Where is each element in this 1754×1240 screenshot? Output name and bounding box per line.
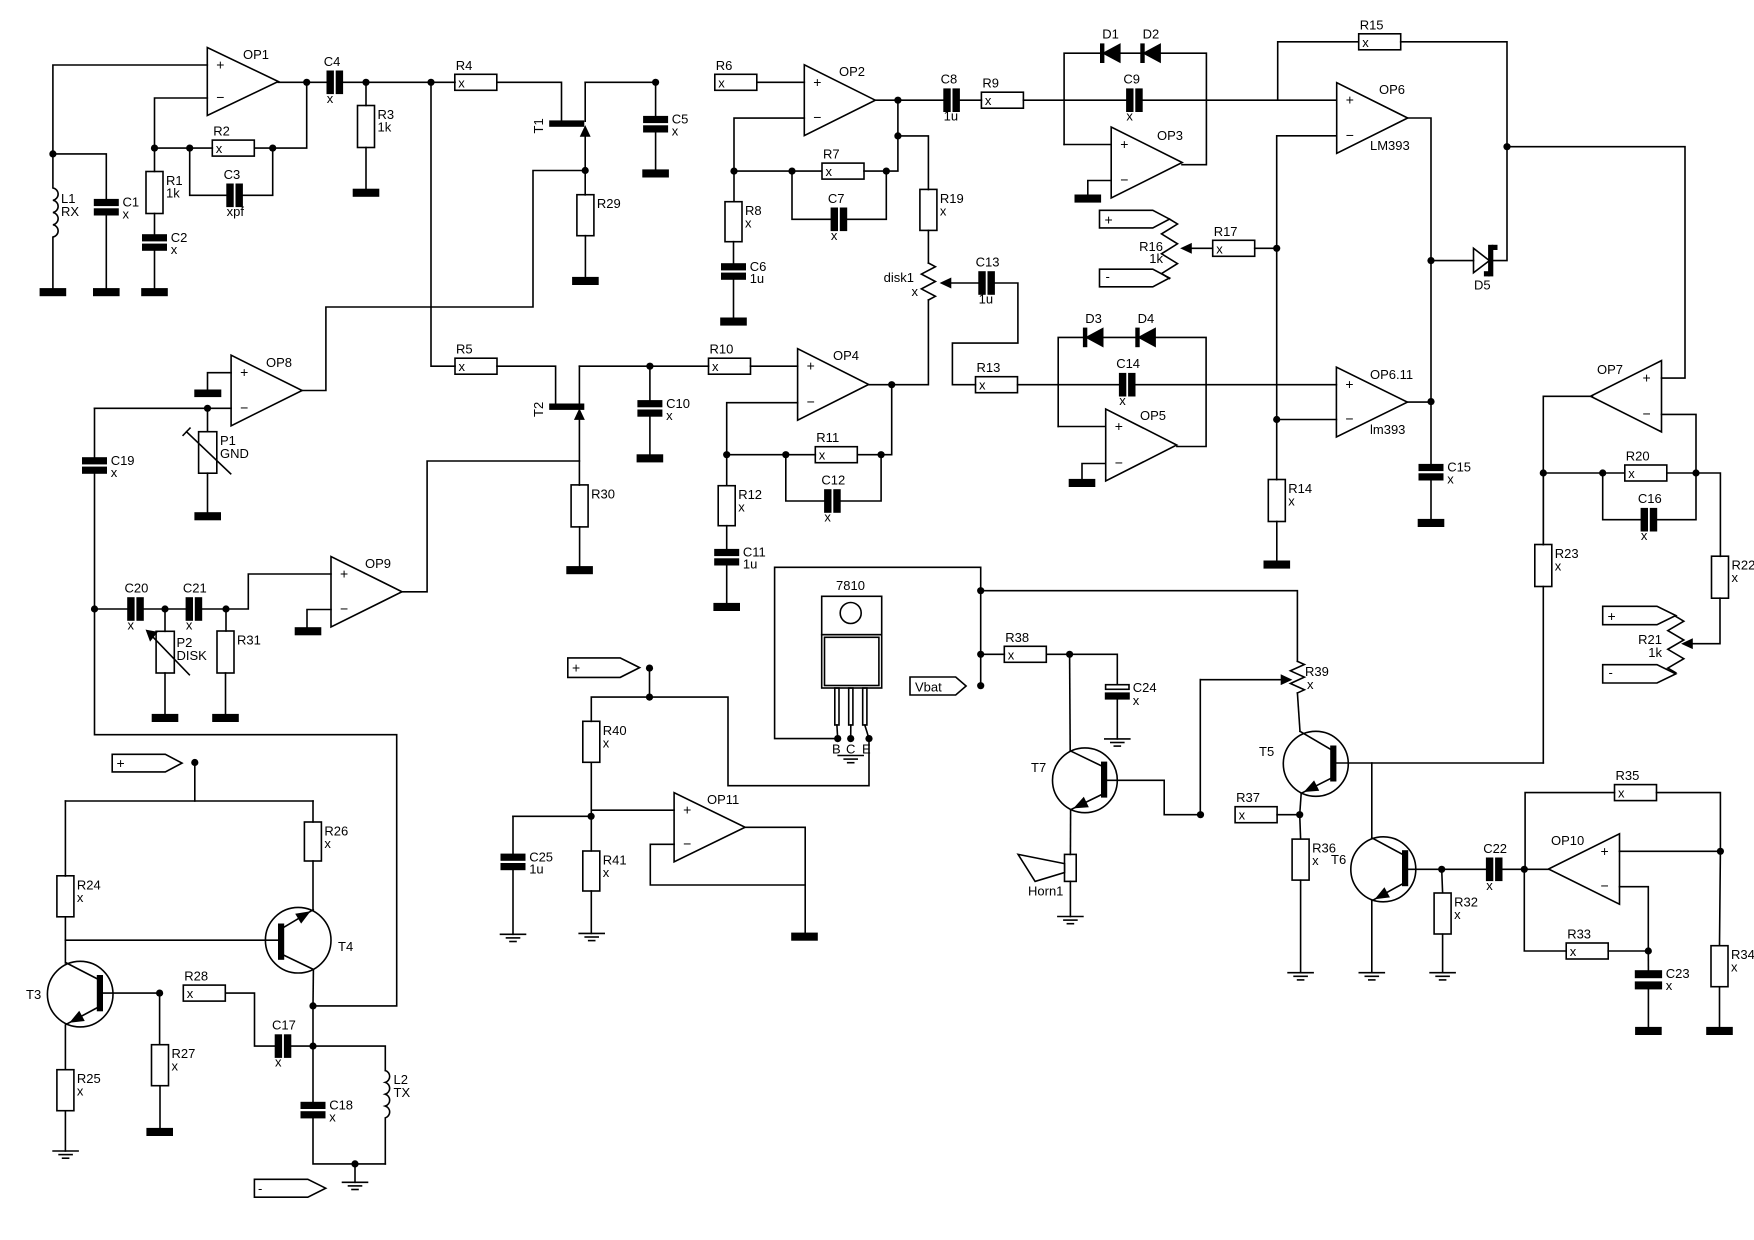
ground C15 (1419, 520, 1444, 527)
svg-text:C8: C8 (941, 72, 958, 87)
wire T5 emitter down (1300, 793, 1302, 814)
capacitor C17 (276, 1035, 282, 1057)
svg-text:−: − (1345, 411, 1353, 427)
node P1/OP8- (204, 405, 211, 412)
wire P2 to ground (164, 673, 166, 715)
svg-text:x: x (128, 618, 135, 633)
wire C3 right leg (242, 148, 273, 195)
resistor R27 (152, 1045, 169, 1086)
svg-text:−: − (340, 601, 348, 617)
svg-text:+: + (1608, 608, 1616, 624)
ground R14 (1264, 561, 1289, 568)
svg-text:DISK: DISK (177, 648, 208, 663)
capacitor C25 (501, 854, 524, 860)
wire R25 to ground (64, 1111, 66, 1151)
node OP2 output (894, 97, 901, 104)
svg-text:C13: C13 (976, 255, 1000, 270)
svg-text:1k: 1k (1149, 251, 1163, 266)
wire plus to rail (194, 763, 196, 802)
capacitor C13 (979, 272, 985, 294)
op-amp OP4 (798, 349, 869, 421)
wire OP6.11 - input (1277, 419, 1337, 421)
svg-text:x: x (172, 1059, 179, 1074)
ground R31 (213, 715, 238, 722)
resistor R31 (217, 631, 234, 673)
svg-text:+: + (572, 660, 580, 676)
svg-text:x: x (912, 284, 919, 299)
wire T6 base (1407, 868, 1441, 870)
wiper arrow R21 (1683, 640, 1692, 648)
node OP6.11 - (1273, 416, 1280, 423)
svg-text:x: x (275, 1055, 282, 1070)
node OP10+/R34/R35 (1717, 848, 1724, 855)
svg-text:T1: T1 (531, 118, 546, 133)
capacitor C3 (227, 184, 233, 206)
wire R6 to OP2 (757, 81, 805, 83)
svg-text:x: x (831, 228, 838, 243)
capacitor C16 (1641, 509, 1647, 531)
wire D3 loop left vertical (1058, 337, 1083, 426)
resistor R7 (822, 163, 864, 179)
ground C1 (94, 289, 119, 296)
wire C7 right leg (846, 171, 886, 219)
wire plus mid vertical (649, 668, 651, 697)
svg-text:x: x (1666, 978, 1673, 993)
wire R40 to OP11 + node (590, 762, 592, 851)
node R3 top (362, 79, 369, 86)
battery minus terminal (1100, 269, 1170, 287)
svg-text:GND: GND (220, 446, 249, 461)
svg-text:OP6.11: OP6.11 (1370, 367, 1413, 382)
svg-text:x: x (718, 75, 725, 90)
trimmer T2 (550, 404, 584, 409)
svg-text:+: + (1345, 376, 1353, 392)
svg-text:OP3: OP3 (1157, 128, 1183, 143)
wire T7 emitter to horn (1069, 810, 1071, 855)
svg-text:+: + (117, 755, 125, 771)
transistor T7 (1053, 748, 1118, 813)
node L1/C1 junction (49, 150, 56, 157)
node R38 left (977, 651, 984, 658)
wiper arrow R16 (1182, 244, 1191, 252)
wire OP5 + input (1058, 426, 1106, 428)
wire R38 row (981, 653, 1005, 655)
transistor T4 (265, 907, 331, 973)
capacitor C14 (1120, 374, 1126, 396)
svg-text:−: − (807, 394, 815, 410)
resistor R17 (1213, 240, 1255, 256)
svg-text:x: x (824, 510, 831, 525)
wire R8 stub (733, 171, 735, 202)
svg-text:x: x (1288, 494, 1295, 509)
wire C12 left leg (786, 455, 825, 501)
potentiometer R39 (1290, 661, 1304, 693)
wire OP11 + input (591, 809, 674, 811)
battery plus terminal (1100, 210, 1170, 228)
svg-text:OP4: OP4 (833, 348, 859, 363)
svg-text:+: + (807, 358, 815, 374)
wire C20-C21 (143, 608, 186, 610)
resistor R20 (1625, 465, 1667, 481)
wire OP3 + input (1064, 144, 1111, 146)
wire rail ground stub (354, 1164, 356, 1182)
wire R10 to OP4 (751, 365, 798, 367)
wire R8 to C6 (733, 242, 735, 264)
capacitor C21 (186, 598, 192, 620)
node C21/R31 (222, 605, 229, 612)
svg-text:x: x (458, 75, 465, 90)
wire T6 emitter to ground (1371, 901, 1373, 973)
wire node to C18 (312, 1046, 314, 1103)
svg-text:R5: R5 (456, 342, 473, 357)
svg-text:R31: R31 (237, 633, 261, 648)
svg-text:D4: D4 (1138, 311, 1155, 326)
wire 7810 B to top rail (775, 567, 981, 738)
svg-text:x: x (603, 865, 610, 880)
svg-text:OP9: OP9 (365, 556, 391, 571)
svg-text:x: x (1362, 35, 1369, 50)
wire C25 to ground (512, 870, 514, 935)
wire T4 collector down (312, 969, 314, 1006)
battery minus terminal right (1603, 665, 1676, 683)
ground C2 (142, 289, 167, 296)
inductor L2 (385, 1071, 389, 1164)
node 7810 pin B (834, 735, 841, 742)
wire T7 collector (1069, 654, 1072, 751)
resistor R28 (183, 985, 225, 1001)
node T4 collector (309, 1002, 316, 1009)
resistor R4 (455, 74, 497, 90)
wire R35 left leg (1525, 793, 1614, 869)
wire OP3 - input to ground (1088, 181, 1111, 196)
svg-text:OP5: OP5 (1140, 408, 1166, 423)
wire R4 to T1 (497, 82, 562, 121)
wire horn to ground (1069, 881, 1071, 916)
wire OP6.11 output stub (1407, 401, 1431, 403)
wire OP10 + input (1620, 850, 1721, 852)
node OP7 out/R23/R20 (1540, 469, 1547, 476)
wire OP2 output (875, 99, 944, 101)
diode D3 (1084, 328, 1087, 346)
svg-text:x: x (1555, 559, 1562, 574)
wire node to R1 (154, 148, 156, 171)
wire R1 to C2 (154, 214, 156, 236)
wire R12 stub (726, 455, 728, 486)
wire R33 branch (1524, 869, 1566, 951)
wire R19 branch (898, 136, 929, 190)
svg-text:T2: T2 (531, 402, 546, 417)
svg-text:R30: R30 (591, 486, 615, 501)
wire C11 to ground (726, 565, 728, 604)
svg-text:disk1: disk1 (884, 270, 914, 285)
svg-text:TX: TX (394, 1085, 411, 1100)
svg-text:−: − (1643, 405, 1651, 421)
wire C18 to bottom rail (313, 1118, 385, 1164)
wire to C22 (1442, 868, 1487, 870)
wire OP6 output (1407, 118, 1431, 465)
wire L2 branch (313, 1046, 385, 1070)
transistor T6 (1351, 837, 1416, 902)
node D5 row (1427, 257, 1434, 264)
svg-text:OP6: OP6 (1379, 82, 1405, 97)
potentiometer P1 (199, 432, 217, 474)
wire R32 to ground (1442, 934, 1444, 973)
capacitor C9 (1127, 89, 1133, 111)
svg-text:lm393: lm393 (1370, 422, 1405, 437)
ground 7810 C pin (838, 755, 863, 757)
wire R39 wiper down (1199, 680, 1201, 815)
wire C14 to OP6.11 + (1135, 384, 1337, 386)
ground OP9 (296, 628, 321, 635)
capacitor C22 (1487, 858, 1493, 880)
trimmer T2 wiper arrow (575, 410, 583, 419)
wire R17 to OP6- node (1255, 247, 1277, 249)
wire OP11 feedback loop (650, 827, 805, 885)
node R33/C23/OP10- (1645, 947, 1652, 954)
resistor R15 (1359, 34, 1401, 50)
svg-text:LM393: LM393 (1370, 138, 1410, 153)
capacitor C4 (327, 71, 333, 93)
resistor R34 (1711, 946, 1728, 987)
capacitor C20 (128, 598, 134, 620)
svg-text:x: x (1307, 677, 1314, 692)
wire R23 to T5 base (1542, 587, 1544, 764)
inductor L1 (53, 154, 58, 289)
wire R38 right (1046, 653, 1069, 655)
node T3 base/R27/R28 (156, 990, 163, 997)
node D5/R15 (1503, 143, 1510, 150)
resistor R25 (57, 1070, 74, 1111)
wire C10 to ground (649, 416, 651, 455)
node 7810 out branch (646, 694, 653, 701)
resistor R10 (709, 358, 751, 374)
svg-text:x: x (1119, 393, 1126, 408)
svg-text:D5: D5 (1474, 278, 1491, 293)
svg-text:x: x (1216, 241, 1223, 256)
svg-text:R35: R35 (1616, 768, 1640, 783)
wire R26 to T4 emitter (312, 861, 314, 910)
svg-text:x: x (1126, 109, 1133, 124)
node R7 left/R8 (730, 168, 737, 175)
svg-text:T6: T6 (1331, 852, 1346, 867)
capacitor C24 (1106, 685, 1129, 690)
svg-text:+: + (1601, 843, 1609, 859)
svg-text:R4: R4 (456, 58, 473, 73)
wire node to OP7 + (1507, 147, 1685, 378)
wire OP11 output to ground (804, 885, 806, 933)
wire R11 row (727, 454, 816, 456)
wire R26 stub top (312, 801, 314, 822)
svg-text:+: + (683, 802, 691, 818)
wire T4 base line (65, 939, 278, 941)
diode D4 (1136, 328, 1139, 346)
svg-text:+: + (1115, 418, 1123, 434)
wire T4 collector to C17 node (312, 1006, 314, 1046)
wire rail to R39 top (981, 591, 1298, 662)
svg-text:−: − (1601, 878, 1609, 894)
wiper arrow R39 (1282, 676, 1291, 684)
capacitor C11 (715, 550, 738, 556)
wire OP1 - input (155, 98, 208, 148)
wire R11 right (857, 454, 881, 456)
capacitor C7 (831, 208, 837, 230)
wire R31 to ground (225, 673, 227, 715)
wire OP1 output (278, 81, 327, 83)
potentiometer disk1 (921, 263, 935, 300)
ground R29 (573, 278, 598, 285)
ground C24 (1105, 738, 1130, 740)
svg-text:T7: T7 (1031, 760, 1046, 775)
svg-text:T5: T5 (1259, 744, 1274, 759)
node R7 right (883, 168, 890, 175)
wire C16 left leg (1603, 473, 1642, 520)
svg-text:+: + (216, 57, 224, 73)
svg-text:x: x (1628, 466, 1635, 481)
svg-text:R6: R6 (716, 58, 733, 73)
capacitor C1 (95, 200, 118, 206)
ground TX tank (343, 1181, 368, 1183)
svg-text:x: x (171, 242, 178, 257)
svg-text:+: + (240, 364, 248, 380)
capacitor C10 (638, 401, 661, 407)
resistor R26 (304, 822, 321, 861)
wire D1 anode vertical (1064, 53, 1100, 144)
battery plus terminal right (1603, 606, 1676, 624)
wire R34 to ground (1719, 987, 1721, 1028)
wire R27 stub (159, 993, 161, 1044)
resistor R9 (981, 92, 1023, 108)
node C10 (646, 363, 653, 370)
ground C5 (643, 170, 668, 177)
node R11 right (878, 451, 885, 458)
node R37/T5 emitter (1296, 811, 1303, 818)
resistor R5 (455, 358, 497, 374)
wire T1 rail to R6 node (585, 81, 655, 83)
svg-text:-: - (1609, 665, 1613, 680)
svg-text:x: x (77, 890, 84, 905)
wire C2 to ground (154, 250, 156, 289)
reference bar OP8 + (195, 390, 220, 396)
wire node to C1 (53, 154, 106, 200)
wire C24 to ground (1116, 699, 1118, 739)
transistor T3 (47, 961, 113, 1027)
ground C25 (501, 933, 526, 935)
wire R7 row (734, 170, 822, 172)
node R11 left/R12 (723, 451, 730, 458)
wire R30 to ground (579, 527, 581, 567)
svg-text:C14: C14 (1116, 356, 1140, 371)
wire OP8 output to T1 node (302, 171, 585, 391)
wire R2 right (254, 147, 272, 149)
wire R32 stub (1441, 869, 1444, 892)
wire R13 to C14 (1018, 384, 1121, 386)
node OP6.11 output (1427, 398, 1434, 405)
svg-text:T4: T4 (338, 939, 353, 954)
svg-text:x: x (1732, 570, 1739, 585)
svg-text:D2: D2 (1143, 27, 1160, 42)
svg-text:R10: R10 (710, 342, 734, 357)
node R4/R5 branch (427, 79, 434, 86)
svg-text:C20: C20 (125, 581, 149, 596)
svg-text:R7: R7 (823, 147, 840, 162)
wire OP2 - input (734, 118, 804, 171)
op-amp OP9 (331, 557, 402, 628)
svg-text:+: + (813, 74, 821, 90)
svg-text:OP1: OP1 (243, 47, 269, 62)
ground Horn1 (1058, 916, 1083, 918)
node plus flag (191, 759, 198, 766)
battery minus flag left (254, 1179, 325, 1197)
resistor R40 (583, 721, 600, 762)
op-amp OP2 (804, 65, 875, 136)
resistor R41 (583, 851, 600, 891)
ground OP3 (1075, 195, 1100, 202)
svg-text:OP8: OP8 (266, 355, 292, 370)
svg-text:−: − (240, 399, 248, 415)
node C22/OP10/R33 (1521, 866, 1528, 873)
wire R31 stub (225, 609, 227, 631)
wire R9 to C9 (1023, 99, 1127, 101)
svg-text:x: x (1618, 786, 1625, 801)
svg-text:+: + (1643, 370, 1651, 386)
wire C16 right leg (1656, 473, 1696, 520)
svg-text:R11: R11 (816, 430, 839, 445)
svg-text:R9: R9 (982, 76, 999, 91)
node plus mid (646, 665, 653, 672)
ground OP11 (792, 933, 817, 940)
svg-text:x: x (1454, 907, 1461, 922)
svg-text:C16: C16 (1638, 491, 1662, 506)
svg-text:+: + (1105, 212, 1113, 228)
ground L1 (40, 289, 65, 296)
wire R20 right (1667, 472, 1696, 474)
svg-text:OP11: OP11 (707, 792, 739, 807)
op-amp OP3 (1111, 127, 1182, 198)
svg-text:1u: 1u (743, 557, 757, 572)
op-amp OP10 (1549, 834, 1620, 904)
svg-text:x: x (712, 359, 719, 374)
wire R7 right (864, 170, 886, 172)
svg-text:R37: R37 (1236, 790, 1260, 805)
svg-text:C12: C12 (821, 473, 845, 488)
potentiometer R16 (1162, 219, 1178, 278)
resistor R29 (577, 195, 594, 236)
node C3 left (186, 145, 193, 152)
ground R34 (1707, 1028, 1732, 1035)
node C17/C18/L2 (309, 1043, 316, 1050)
op-amp OP11 (674, 793, 745, 862)
wire C10 stub (649, 366, 651, 401)
node C7 left (788, 168, 795, 175)
transistor T5 (1283, 731, 1348, 796)
wire C4 to R4 (342, 81, 455, 83)
node 7810 pin E (865, 735, 872, 742)
capacitor C18 (301, 1103, 324, 1109)
svg-text:−: − (216, 89, 224, 105)
wire D4 to OP5 output vertical (1155, 337, 1206, 446)
wire T3 base (102, 992, 159, 994)
wire R23 stub (1542, 473, 1544, 545)
svg-text:C4: C4 (324, 54, 341, 69)
resistor R1 (146, 172, 163, 214)
ground C23 (1636, 1028, 1661, 1035)
op-amp OP7 (1591, 361, 1662, 432)
resistor R33 (1566, 943, 1608, 959)
node Vbat rail 1 (977, 587, 984, 594)
wire C9 to OP6 + input (1142, 99, 1337, 101)
ground R36 (1288, 972, 1313, 974)
resistor R14 (1268, 480, 1285, 522)
